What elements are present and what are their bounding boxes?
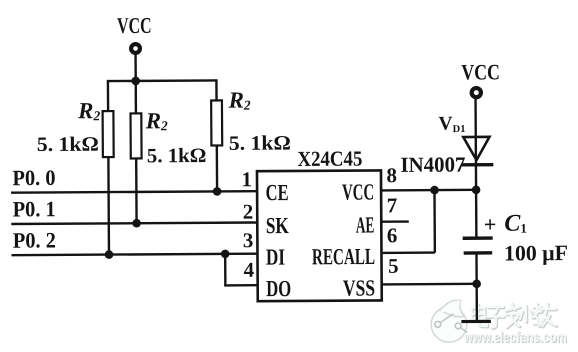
label R2 (left) <box>77 98 100 123</box>
wire rail to resistor R2 (right) <box>215 79 218 100</box>
svg-text:8: 8 <box>386 163 397 187</box>
wire top rail <box>108 79 216 82</box>
junction dot DO tap on P0.2 <box>221 250 230 259</box>
svg-text:2: 2 <box>243 200 254 224</box>
resistor R2 (middle) body <box>131 113 142 158</box>
svg-text:3: 3 <box>243 228 254 252</box>
svg-text:SK: SK <box>266 213 289 238</box>
label net P0.2 <box>13 227 56 252</box>
label VD1 <box>438 114 465 136</box>
pin label DO <box>266 276 291 301</box>
pin label VCC <box>342 179 374 204</box>
label R2 (middle) <box>145 108 168 133</box>
svg-text:RECALL: RECALL <box>312 244 375 269</box>
wire net P0.0 to pin 1 <box>11 191 257 193</box>
wire VCC terminal to rail <box>134 54 137 80</box>
wire DO tap vertical <box>224 254 227 285</box>
junction dot on P0.2 <box>105 250 114 259</box>
svg-text:5: 5 <box>388 254 399 278</box>
junction dot on P0.1 <box>132 219 141 228</box>
svg-text:100 μF: 100 μF <box>504 240 568 265</box>
pin number 4 <box>243 258 254 282</box>
svg-text:R2: R2 <box>145 108 168 133</box>
svg-text:4: 4 <box>243 258 254 282</box>
pin label DI <box>266 245 285 270</box>
wire pin 7 stub (AE) <box>381 220 408 223</box>
resistor R2 (right) body <box>211 100 222 145</box>
watermark text dianzifashaoyou <box>472 304 557 329</box>
pin number 5 <box>388 254 399 278</box>
resistor R2 (left) body <box>103 111 114 157</box>
svg-text:6: 6 <box>387 223 398 247</box>
junction dot on top rail <box>131 77 140 86</box>
pin label RECALL <box>312 244 375 269</box>
wire DO tap to pin 4 <box>224 284 257 287</box>
svg-text:P0. 2: P0. 2 <box>13 227 56 252</box>
power VCC (right) terminal ring <box>472 88 481 97</box>
wire pin 8 to diode node <box>381 189 476 192</box>
svg-text:VSS: VSS <box>343 275 375 300</box>
wire resistor R2 (left) to P0.2 <box>107 157 110 254</box>
svg-text:5. 1kΩ: 5. 1kΩ <box>147 145 207 167</box>
wire RECALL riser <box>433 190 436 252</box>
junction dot VSS/cap <box>472 280 481 289</box>
pin number 1 <box>241 167 252 191</box>
pin label VSS <box>343 275 375 300</box>
value 100uF <box>504 240 568 265</box>
pin number 2 <box>243 200 254 224</box>
pin number 3 <box>243 228 254 252</box>
wire resistor R2 (right) to P0.0 <box>216 145 219 191</box>
wire capacitor bottom plate to ground <box>475 253 478 321</box>
label net P0.0 <box>12 165 55 190</box>
power VCC (left) terminal ring <box>131 44 140 53</box>
power VCC (right) label <box>461 59 500 84</box>
watermark logo circle <box>431 300 467 342</box>
power VCC (left) label <box>117 13 152 38</box>
diode VD1 cathode bar <box>462 163 493 167</box>
pin number 6 <box>387 223 398 247</box>
svg-text:DI: DI <box>266 245 285 270</box>
pin label AE <box>356 212 375 237</box>
capacitor C1 top plate <box>463 236 493 240</box>
value 5.1k ohm (left) <box>37 134 99 156</box>
svg-text:IN4007: IN4007 <box>400 153 465 177</box>
label C1 <box>504 211 527 237</box>
svg-text:www.elecfans.com: www.elecfans.com <box>463 330 567 346</box>
wire rail to resistor R2 (left) <box>107 80 110 111</box>
svg-text:5. 1kΩ: 5. 1kΩ <box>229 132 291 154</box>
label X24C45 <box>297 147 362 171</box>
junction dot pin8/diode <box>472 186 481 195</box>
ground bar <box>461 320 490 323</box>
label net P0.1 <box>13 196 56 221</box>
value 5.1k ohm (middle) <box>147 145 207 167</box>
svg-text:VD1: VD1 <box>438 114 465 136</box>
wire resistor R2 (middle) to P0.1 <box>135 158 138 223</box>
svg-text:AE: AE <box>356 212 375 237</box>
wire rail to resistor R2 (middle) <box>135 81 138 113</box>
svg-text:CE: CE <box>266 180 289 205</box>
label IN4007 <box>400 153 465 177</box>
svg-text:5. 1kΩ: 5. 1kΩ <box>37 134 99 156</box>
watermark url <box>463 330 568 347</box>
pin label SK <box>266 213 289 238</box>
svg-text:DO: DO <box>266 276 291 301</box>
svg-text:P0. 1: P0. 1 <box>13 196 56 221</box>
label R2 (right) <box>227 88 250 113</box>
svg-text:VCC: VCC <box>461 59 500 84</box>
diode VD1 triangle <box>463 137 489 160</box>
wire VCC to capacitor top plate <box>474 99 477 237</box>
pin number 8 <box>386 163 397 187</box>
wire pin 5 VSS to ground node <box>382 283 477 286</box>
svg-text:C1: C1 <box>504 211 527 237</box>
junction dot on P0.0 <box>213 187 222 196</box>
svg-text:X24C45: X24C45 <box>297 147 362 171</box>
value 5.1k ohm (right) <box>229 132 291 154</box>
wire pin 6 RECALL horizontal <box>381 251 434 254</box>
capacitor C1 bottom plate <box>464 251 493 255</box>
svg-text:VCC: VCC <box>342 179 374 204</box>
wire net P0.2 to pin 3 <box>11 254 257 256</box>
svg-text:+: + <box>484 212 497 237</box>
wire net P0.1 to pin 2 <box>11 222 257 224</box>
svg-text:1: 1 <box>241 167 252 191</box>
svg-text:VCC: VCC <box>117 13 152 38</box>
pin label CE <box>266 180 289 205</box>
pin number 7 <box>387 193 398 217</box>
svg-text:P0. 0: P0. 0 <box>12 165 55 190</box>
IC U1 X24C45 body <box>257 170 382 301</box>
junction dot pin8/RECALL <box>430 186 439 195</box>
svg-text:R2: R2 <box>227 88 250 113</box>
svg-text:7: 7 <box>387 193 398 217</box>
label + polarity <box>484 212 497 237</box>
svg-text:R2: R2 <box>77 98 100 123</box>
